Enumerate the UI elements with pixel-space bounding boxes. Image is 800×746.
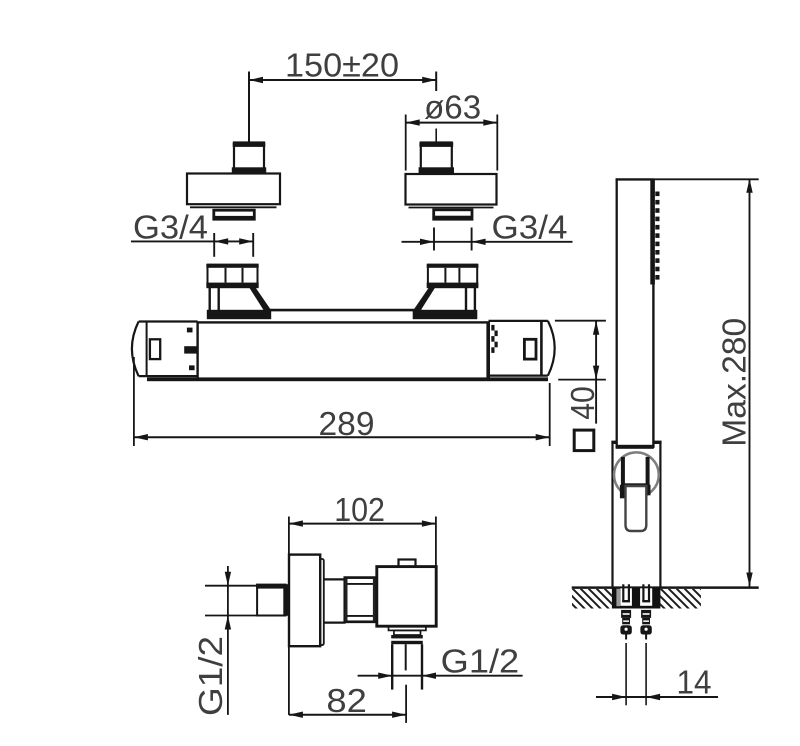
svg-text:82: 82	[326, 682, 367, 719]
hand shower wand	[616, 178, 655, 448]
wall hatching left of holder	[572, 589, 612, 609]
svg-text:G1/2: G1/2	[192, 636, 229, 716]
wall section under holder	[612, 588, 661, 608]
left wall flange	[187, 174, 280, 208]
wall hatching right of holder	[660, 589, 701, 609]
dimension 289	[134, 357, 550, 446]
left inlet nut on body	[206, 264, 258, 287]
right inlet nut on body	[427, 264, 479, 287]
temperature scale marks	[184, 328, 198, 371]
right wall flange	[406, 174, 497, 208]
dimension G3/4 right	[402, 209, 573, 251]
shower holder bracket	[611, 441, 661, 588]
left G1/2 connector square	[256, 584, 289, 616]
svg-text:102: 102	[334, 491, 385, 528]
valve neck (side view)	[324, 579, 346, 622]
svg-text:G3/4: G3/4	[133, 209, 208, 246]
holder ring (grey circle)	[614, 452, 659, 497]
spray nozzle dots	[655, 192, 659, 280]
svg-text:14: 14	[677, 663, 712, 700]
mixer body (front view)	[147, 322, 548, 381]
svg-text:ø63: ø63	[424, 88, 481, 125]
cartridge hex nut (side view)	[345, 578, 376, 622]
dimension 14	[596, 663, 718, 700]
dimension G1/2 left (rotated)	[192, 566, 260, 716]
outlet pipe	[392, 644, 422, 689]
hose end left (through wall)	[622, 584, 630, 602]
right G3/4 collar	[433, 210, 473, 220]
dimension G3/4 left	[131, 209, 254, 257]
svg-text:40: 40	[564, 386, 601, 420]
dimension 150±20	[249, 46, 436, 142]
ridge between inlets	[269, 309, 422, 312]
dimension G1/2 right (outlet)	[358, 642, 523, 679]
dimension 40 (square)	[555, 321, 606, 451]
right eccentric wall union: pipe stub	[419, 142, 454, 173]
escutcheon disc (side view)	[289, 555, 324, 647]
left G3/4 collar	[213, 210, 255, 220]
dimension ø63	[406, 88, 498, 170]
outlet stack under body	[389, 626, 426, 644]
right end cap (flow handle)	[489, 321, 555, 376]
hose end right (through wall)	[642, 584, 650, 602]
dimension Max.280	[654, 179, 759, 587]
left eccentric wall union: pipe stub	[232, 142, 266, 173]
right inlet legs and foot	[413, 288, 478, 320]
hose fitting right	[640, 610, 651, 705]
hose fitting left	[620, 610, 631, 705]
svg-text:G1/2: G1/2	[441, 642, 520, 679]
svg-text:Max.280: Max.280	[715, 318, 752, 447]
svg-text:G3/4: G3/4	[492, 209, 568, 246]
svg-text:289: 289	[319, 405, 375, 442]
svg-text:150±20: 150±20	[285, 46, 399, 83]
flow scale checker marks	[491, 325, 497, 353]
holder clip and handle grip	[620, 457, 651, 531]
wall line (right view)	[572, 586, 759, 589]
valve body block (side view)	[377, 560, 436, 627]
dimension 102 (side view)	[289, 491, 436, 715]
left inlet legs and foot	[207, 288, 271, 320]
left end cap (temperature handle)	[132, 322, 198, 377]
dimension 82	[289, 682, 406, 723]
